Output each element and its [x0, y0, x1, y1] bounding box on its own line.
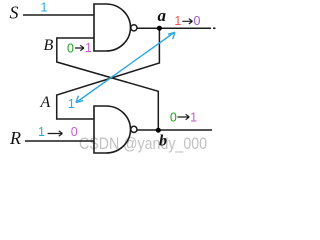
svg-text:1: 1 [85, 41, 92, 55]
svg-text:B: B [44, 37, 54, 54]
svg-text:0: 0 [67, 42, 74, 56]
svg-text:1: 1 [190, 110, 197, 124]
svg-text:a: a [158, 6, 167, 25]
svg-text:1: 1 [41, 1, 48, 15]
svg-text:R: R [9, 128, 21, 148]
svg-text:1: 1 [68, 97, 75, 111]
svg-text:S: S [10, 3, 19, 23]
svg-text:b: b [159, 133, 167, 150]
svg-text:CSDN @yandy_000: CSDN @yandy_000 [79, 135, 207, 153]
svg-text:0: 0 [194, 14, 201, 28]
svg-text:1: 1 [38, 125, 45, 139]
svg-text:A: A [40, 94, 51, 111]
svg-text:0: 0 [71, 125, 78, 139]
svg-text:0: 0 [170, 110, 177, 124]
svg-text:1: 1 [174, 14, 181, 28]
